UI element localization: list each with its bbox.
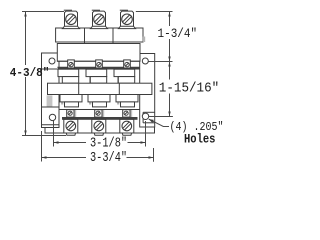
lower small screw L3: [123, 110, 133, 117]
left bottom mounting hole: [49, 114, 55, 120]
left mounting ear column: [42, 53, 60, 128]
arrow 3-1/8 right: [141, 141, 146, 143]
top terminal T2: [91, 10, 108, 28]
dim 4-3/8 line: [25, 12, 27, 136]
arrow 3-3/4 left: [42, 156, 47, 158]
gray step right of top plate: [143, 37, 145, 43]
coil screw S3: [124, 60, 131, 68]
dim 3-3/4 extension right: [153, 148, 155, 162]
coil screw S1: [68, 60, 75, 68]
arrow 1-3/4 top: [168, 12, 170, 17]
left top mounting hole: [49, 58, 55, 64]
arrow 4-3/8 bottom: [24, 131, 26, 136]
lower small screw L1: [67, 110, 77, 117]
dim 3-1/8 extension left: [53, 121, 55, 147]
svg-text:3-1/8": 3-1/8": [90, 135, 127, 151]
arrow 3-3/4 right: [149, 156, 154, 158]
dim 4-3/8 extension bottom: [22, 135, 66, 137]
dim 1-3/4 / 1-15/16 shared extension: [149, 61, 173, 63]
svg-text:Holes: Holes: [184, 131, 215, 146]
dimension lines: [22, 12, 173, 162]
body lower blocks row: [60, 95, 138, 107]
arrow 3-1/8 left: [54, 141, 59, 143]
gray tie rod strips: [47, 69, 152, 109]
lower small screw L2: [95, 110, 105, 117]
leader line for holes note: [149, 119, 169, 126]
label 3-3/4: [86, 150, 127, 166]
label 3-1/8: [86, 135, 128, 151]
coil screw row strip: [57, 60, 140, 62]
arrow 4-3/8 top: [24, 12, 26, 17]
dim 1-15/16 extension bottom: [149, 116, 173, 118]
bottom terminal B1: [64, 119, 78, 135]
arrow 1-15/16 top: [168, 62, 170, 67]
body wide middle band: [48, 83, 152, 94]
svg-text:1-15/16": 1-15/16": [159, 81, 219, 97]
body upper blocks row: [58, 69, 135, 83]
right bottom mounting hole: [142, 113, 148, 119]
dim 3-3/4 extension left: [41, 131, 43, 162]
bottom terminal B2: [92, 119, 106, 135]
coil screw S2: [96, 60, 103, 68]
left ear gray inset: [47, 95, 53, 106]
right ear hole box: [142, 112, 144, 123]
svg-text:3-3/4": 3-3/4": [90, 150, 127, 166]
dark band above bottom terminals: [62, 117, 138, 120]
bottom terminal B3: [120, 119, 134, 135]
svg-text:1-3/4": 1-3/4": [158, 26, 198, 41]
top terminal T1: [63, 10, 80, 28]
right mounting ear column: [140, 54, 155, 128]
dim 1-3/4 extension top: [136, 11, 173, 13]
label 1-15/16: [158, 80, 221, 97]
dim 4-3/8 extension top: [22, 11, 64, 13]
svg-text:4-3/8": 4-3/8": [10, 66, 50, 80]
arrow 1-3/4 bottom: [168, 57, 170, 62]
dim 3-3/4 line: [42, 157, 154, 159]
top terminal T3: [119, 10, 136, 28]
arrow holes leader: [149, 119, 154, 123]
arrow 1-15/16 bottom: [168, 112, 170, 117]
upper body block: [57, 44, 140, 62]
right top mounting hole: [142, 58, 148, 64]
dim 3-1/8 extension right: [145, 121, 147, 147]
dim right vertical line: [169, 12, 171, 117]
label (4) .205 holes: [170, 122, 224, 147]
label 4-3/8: [8, 65, 49, 80]
dim 3-1/8 line: [54, 142, 146, 144]
top plate: [56, 28, 143, 44]
label 1-3/4: [156, 26, 197, 41]
bottom plate: [45, 110, 155, 134]
